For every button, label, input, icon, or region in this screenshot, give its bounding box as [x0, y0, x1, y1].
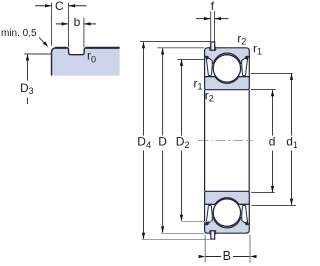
right shield: [242, 58, 248, 75]
ball: [213, 55, 240, 82]
centerline: [198, 140, 253, 142]
dimension B: [204, 235, 206, 263]
dimension C: [51, 3, 53, 46]
svg-text:C: C: [55, 0, 64, 13]
slab thick top edge: [55, 47, 120, 49]
dimension f: [210, 11, 212, 41]
svg-text:b: b: [74, 15, 81, 29]
svg-text:B: B: [223, 249, 231, 263]
left shield curl: [206, 56, 209, 59]
snap ring tab: [211, 42, 215, 50]
dimension D3: [27, 54, 29, 80]
slab outline (face + groove): [52, 48, 120, 76]
left face edge through cavity: [204, 56, 206, 78]
svg-text:min. 0,5: min. 0,5: [1, 28, 37, 39]
right shield curl: [245, 56, 248, 59]
outer ring: [205, 48, 250, 64]
upper bearing half-section: [205, 42, 250, 90]
dimension d1: [291, 74, 293, 136]
snap ring groove: [210, 47, 216, 50]
dimension b: [83, 18, 85, 48]
right face edge through cavity: [248, 56, 250, 78]
svg-text:D: D: [158, 135, 167, 149]
dimension D: [162, 48, 164, 135]
dimension D4: [143, 42, 145, 135]
left shield: [206, 58, 212, 75]
inner ring land lines: [205, 76, 215, 78]
extension lines top: [140, 41, 210, 43]
D3 extension line at groove bottom level: [24, 53, 51, 55]
lower bearing half-section (mirror): [205, 191, 250, 239]
bore silhouette lines (faces): [204, 90, 206, 191]
extension lines bottom (gray): [142, 239, 211, 241]
dimension D2: [181, 60, 183, 136]
inner ring: [205, 77, 250, 90]
extension lines right: [251, 89, 276, 91]
svg-text:d: d: [269, 135, 276, 149]
outer ring detail slab: [52, 48, 120, 76]
dimension d: [272, 90, 274, 135]
